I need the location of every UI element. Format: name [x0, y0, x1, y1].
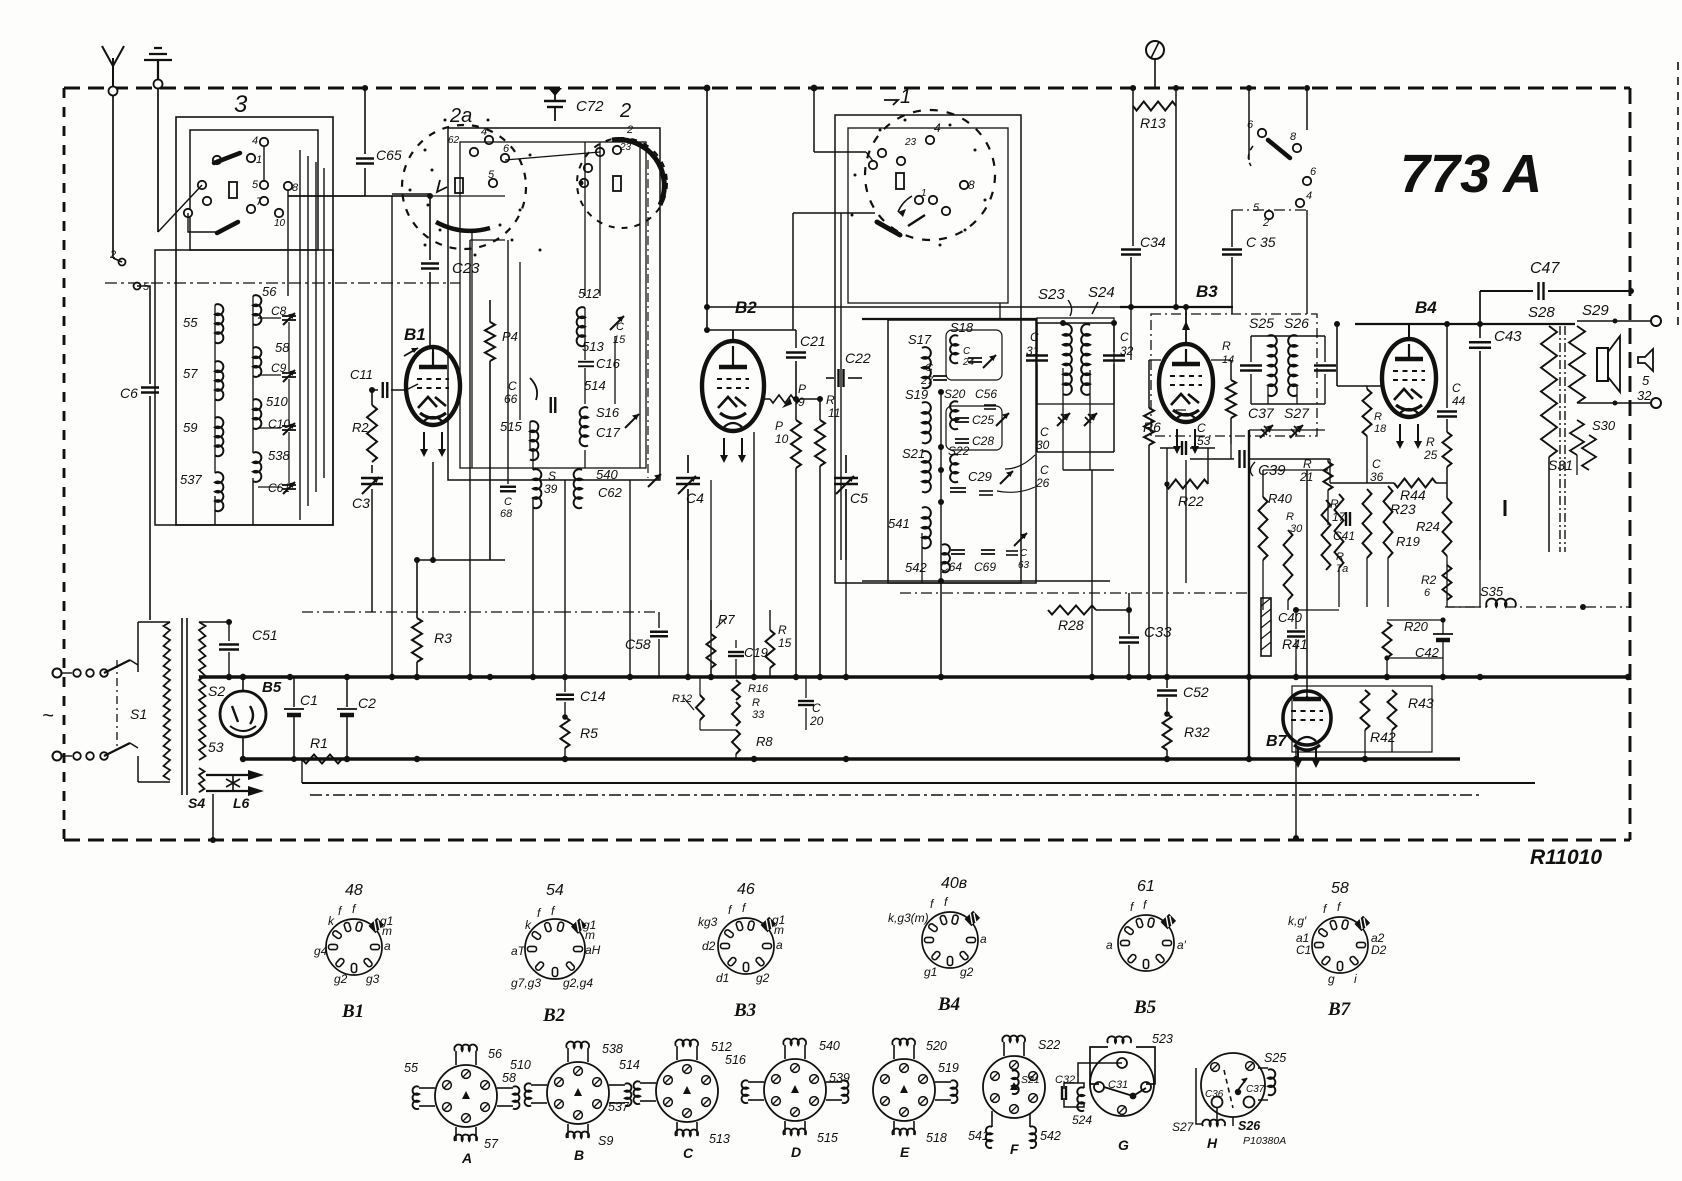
- svg-text:g3: g3: [366, 972, 380, 986]
- svg-text:S23: S23: [1038, 286, 1065, 303]
- switch 2a rotor: [436, 222, 490, 231]
- svg-text:519: 519: [938, 1061, 959, 1075]
- svg-text:C25: C25: [972, 413, 994, 427]
- trimmer C63: [1014, 533, 1027, 546]
- coil 56 of unit A: [455, 1051, 457, 1065]
- unit G rotor: [1104, 1087, 1146, 1096]
- svg-text:54: 54: [546, 882, 564, 899]
- trimmer C29t: [1000, 471, 1013, 484]
- switch 3 rotor blade: [214, 153, 240, 163]
- svg-text:C62: C62: [598, 485, 623, 500]
- svg-text:S1: S1: [130, 706, 147, 722]
- resistor R18: [1366, 386, 1368, 389]
- svg-text:a: a: [1106, 938, 1113, 952]
- coil unit E: [873, 1059, 935, 1121]
- capacitor C27: [933, 375, 947, 377]
- unit H arrow: [1238, 1078, 1247, 1090]
- svg-text:C61: C61: [268, 481, 290, 495]
- svg-text:44: 44: [1452, 394, 1466, 408]
- inner box S20: [946, 406, 1002, 450]
- switch 2 contacts: [596, 148, 604, 156]
- svg-text:C: C: [1120, 330, 1129, 344]
- svg-text:R: R: [1374, 411, 1382, 423]
- coil S20: [950, 401, 958, 429]
- pot R9 arrow: [770, 395, 800, 403]
- svg-text:R1: R1: [310, 735, 328, 751]
- coil 524 of unit G: [1077, 1087, 1084, 1111]
- svg-text:C: C: [1452, 381, 1461, 395]
- coil 57 of unit A: [455, 1127, 457, 1141]
- svg-text:C3: C3: [352, 495, 370, 511]
- resistor R32: [1163, 714, 1172, 750]
- S35 dashdot wire: [1445, 606, 1487, 608]
- coil S38: [253, 452, 261, 482]
- svg-text:S16: S16: [596, 405, 620, 420]
- svg-text:B5: B5: [262, 679, 282, 696]
- svg-text:G: G: [1118, 1137, 1129, 1153]
- trimmer C17: [625, 414, 639, 428]
- coil 537 of unit B: [609, 1084, 625, 1086]
- coil S25 of unit H: [1258, 1067, 1268, 1069]
- svg-text:541: 541: [888, 516, 910, 531]
- resistor R30: [1284, 530, 1293, 600]
- svg-text:B5: B5: [1133, 997, 1157, 1018]
- svg-text:S4: S4: [188, 795, 205, 811]
- svg-text:23: 23: [619, 142, 632, 153]
- coil 514 of unit C: [640, 1082, 656, 1084]
- coil 520 of unit E: [893, 1045, 895, 1059]
- svg-text:S30: S30: [1592, 418, 1616, 433]
- svg-text:1: 1: [256, 154, 262, 166]
- mixer box internal wires: [940, 392, 942, 583]
- svg-text:C: C: [1030, 330, 1039, 344]
- resistor R41 hatched: [1261, 598, 1271, 656]
- svg-text:C1: C1: [300, 692, 318, 708]
- svg-text:S19: S19: [905, 387, 928, 402]
- svg-text:R11010: R11010: [1530, 846, 1602, 869]
- coil S7: [215, 361, 223, 400]
- winding S4: [199, 768, 205, 792]
- svg-text:C32: C32: [1055, 1074, 1075, 1086]
- svg-text:C31: C31: [1108, 1079, 1128, 1091]
- svg-text:514: 514: [584, 378, 606, 393]
- svg-text:H: H: [1207, 1135, 1218, 1151]
- svg-text:C: C: [812, 701, 821, 715]
- scan noise dots around switch 1: [879, 129, 882, 132]
- svg-text:a: a: [980, 932, 987, 946]
- wafer switch 3 inner box: [190, 130, 318, 250]
- svg-text:R6: R6: [1143, 419, 1161, 435]
- svg-text:36: 36: [1370, 470, 1384, 484]
- tube B3: [1159, 344, 1213, 422]
- B7 box: [1292, 686, 1432, 752]
- coil 515 of unit D: [784, 1121, 786, 1135]
- capacitor C68: [500, 486, 516, 488]
- mains switch blades: [104, 660, 130, 673]
- svg-text:C: C: [1020, 548, 1028, 559]
- svg-text:55: 55: [183, 315, 198, 330]
- svg-text:aT: aT: [511, 944, 527, 958]
- svg-text:g: g: [1328, 972, 1335, 986]
- svg-text:R: R: [778, 623, 787, 637]
- svg-text:C: C: [1040, 463, 1049, 477]
- resistor R28: [1048, 606, 1096, 615]
- svg-text:538: 538: [602, 1042, 623, 1056]
- svg-text:523: 523: [1152, 1032, 1173, 1046]
- alignment arrows S25 S26: [1260, 425, 1273, 438]
- svg-text:C6: C6: [120, 385, 138, 401]
- top right switch cluster: [1258, 129, 1266, 137]
- svg-text:kg3: kg3: [698, 915, 718, 929]
- svg-text:S35: S35: [1480, 584, 1504, 599]
- coil S42: [942, 544, 950, 572]
- coil 513 of unit C: [676, 1122, 678, 1136]
- wire switch3 to C65: [288, 195, 365, 197]
- svg-text:539: 539: [829, 1071, 850, 1085]
- antenna symbol: [102, 46, 124, 95]
- wafer switch 2a dashed circle: [402, 125, 526, 249]
- coil S25: [1268, 335, 1277, 396]
- svg-text:S9: S9: [598, 1134, 613, 1148]
- trimmer C24: [968, 357, 982, 359]
- resistor R14: [1230, 360, 1232, 380]
- svg-text:C 35: C 35: [1246, 234, 1276, 250]
- variable capacitor C5: [845, 455, 847, 473]
- capacitor C51: [199, 621, 229, 623]
- switch 3 rotor blade 2: [217, 222, 238, 233]
- capacitor C11: [372, 389, 378, 391]
- coil 541 of unit F: [991, 1111, 993, 1127]
- svg-text:C47: C47: [1530, 260, 1560, 277]
- svg-text:C72: C72: [576, 98, 604, 115]
- svg-text:514: 514: [619, 1058, 640, 1072]
- svg-text:25: 25: [1423, 448, 1438, 462]
- svg-text:C34: C34: [1140, 234, 1166, 250]
- oscillator box outer: [448, 128, 660, 480]
- svg-text:4: 4: [252, 135, 258, 147]
- svg-text:S24: S24: [1088, 284, 1115, 301]
- coil S40: [574, 469, 582, 508]
- coil S19: [922, 402, 931, 443]
- speaker: [1597, 348, 1608, 381]
- capacitor C32: [1113, 323, 1115, 352]
- coil 58 of unit A: [497, 1087, 513, 1089]
- svg-text:i: i: [1354, 972, 1357, 986]
- svg-text:6: 6: [1310, 166, 1317, 178]
- cap column vertical: [288, 322, 290, 371]
- svg-text:R12: R12: [672, 693, 692, 705]
- svg-text:C69: C69: [974, 560, 996, 574]
- switch 3 contacts: [213, 156, 221, 164]
- svg-text:515: 515: [500, 419, 522, 434]
- cluster wiring: [1248, 88, 1250, 160]
- resistor R40: [1262, 470, 1264, 497]
- svg-text:R: R: [1336, 551, 1344, 563]
- resistor R43: [1388, 690, 1397, 730]
- svg-text:542: 542: [905, 560, 927, 575]
- svg-text:g1: g1: [924, 965, 937, 979]
- svg-text:R16: R16: [748, 683, 769, 695]
- coil S23: [1063, 324, 1072, 395]
- B3 grid top wire: [1120, 306, 1233, 308]
- svg-text:S17: S17: [908, 332, 932, 347]
- capacitor C38 left: [1250, 336, 1252, 362]
- B3 heater arrows: [1176, 429, 1178, 446]
- svg-text:aH: aH: [585, 943, 601, 957]
- HT bus line (thick): [199, 675, 1630, 679]
- coil S35: [1486, 599, 1516, 607]
- svg-text:55: 55: [404, 1061, 418, 1075]
- svg-text:11: 11: [828, 406, 840, 420]
- extra junction dots: [704, 304, 710, 310]
- svg-text:R: R: [1330, 497, 1339, 511]
- svg-text:C8: C8: [271, 304, 287, 318]
- svg-text:15: 15: [778, 636, 792, 650]
- svg-text:56: 56: [262, 284, 277, 299]
- osc internal verticals2: [507, 240, 509, 484]
- winding S29: [1569, 326, 1585, 403]
- svg-text:C4: C4: [686, 490, 704, 506]
- svg-text:S22: S22: [948, 444, 970, 458]
- svg-text:510: 510: [266, 394, 288, 409]
- coil 523 of unit G: [1090, 1047, 1108, 1084]
- mark 1 tick: [1504, 500, 1507, 516]
- svg-text:518: 518: [926, 1131, 947, 1145]
- S4 lead to border: [212, 794, 214, 840]
- svg-text:C: C: [925, 362, 933, 374]
- svg-text:R24: R24: [1416, 519, 1440, 534]
- tube B2: [702, 341, 764, 431]
- coil S12: [577, 307, 585, 346]
- capacitor C29: [950, 487, 966, 489]
- svg-text:g4: g4: [314, 944, 328, 958]
- svg-text:m: m: [382, 924, 392, 938]
- resistor R19: [1363, 489, 1372, 558]
- vertical wire x707 from border to B2 plate: [706, 88, 708, 330]
- dashed chassis border: [64, 87, 1630, 90]
- svg-text:5: 5: [252, 179, 259, 191]
- wafer switch 2 dashed circle: [577, 138, 667, 228]
- svg-text:C29: C29: [968, 469, 992, 484]
- capacitor C32 of unit G: [1061, 1086, 1063, 1100]
- svg-text:B7: B7: [1266, 733, 1288, 750]
- svg-text:C14: C14: [580, 688, 606, 704]
- capacitor C43: [1479, 324, 1481, 338]
- B2 grid wire: [764, 398, 770, 400]
- resistor R7a: [1322, 500, 1331, 570]
- capacitor C21: [786, 351, 806, 353]
- svg-text:6: 6: [1424, 587, 1431, 599]
- svg-text:8: 8: [968, 178, 975, 192]
- trimmer C8: [282, 315, 296, 317]
- resistor R8: [732, 730, 740, 754]
- coil unit H: [1201, 1053, 1265, 1117]
- svg-text:32: 32: [1637, 388, 1652, 403]
- speaker field S30 S31: [1570, 420, 1584, 455]
- secondary S2 S3: [199, 622, 206, 760]
- coil 519 of unit E: [935, 1081, 951, 1083]
- svg-text:C: C: [504, 496, 512, 508]
- R1 lower wire: [301, 759, 303, 783]
- capacitor C22: [826, 377, 834, 379]
- heater dash-dot line: [310, 794, 1480, 796]
- capacitor C28: [955, 438, 969, 440]
- resistor R20: [1383, 622, 1392, 658]
- svg-text:R7: R7: [718, 612, 735, 627]
- capacitor C14: [564, 688, 566, 692]
- svg-text:C37: C37: [1246, 1084, 1265, 1095]
- resistor R16: [732, 680, 740, 700]
- svg-text:31: 31: [1026, 344, 1039, 358]
- svg-text:S18: S18: [950, 320, 974, 335]
- svg-text:S25: S25: [1264, 1051, 1286, 1065]
- svg-text:g2: g2: [960, 965, 974, 979]
- long vertical wires extra: [564, 480, 566, 677]
- capacitor C25: [955, 417, 969, 419]
- resistor R13: [1132, 88, 1134, 106]
- svg-text:R22: R22: [1178, 493, 1204, 509]
- svg-text:4: 4: [934, 121, 941, 135]
- cathode junction wire: [417, 559, 505, 561]
- svg-text:3: 3: [234, 91, 248, 118]
- svg-text:P: P: [798, 382, 806, 396]
- svg-text:C17: C17: [596, 425, 621, 440]
- svg-text:C28: C28: [972, 434, 994, 448]
- coil S24: [1081, 324, 1090, 395]
- svg-text:516: 516: [725, 1053, 746, 1067]
- capacitor C41: [1345, 512, 1347, 526]
- coil S22 of unit F: [1003, 1042, 1005, 1056]
- svg-text:6: 6: [1247, 119, 1254, 131]
- svg-text:R20: R20: [1404, 619, 1429, 634]
- svg-text:C10: C10: [268, 417, 290, 431]
- osc box dash-dot right: [647, 160, 649, 478]
- B2 plate wiring: [707, 329, 796, 331]
- capacitor C6: [149, 340, 151, 384]
- svg-text:5: 5: [1642, 373, 1650, 388]
- svg-text:53: 53: [208, 739, 224, 755]
- svg-text:10: 10: [274, 218, 286, 229]
- left coil interconnect wires: [214, 305, 216, 473]
- unit G left wire: [1078, 1063, 1122, 1083]
- S25 S26 wiring: [1251, 335, 1325, 337]
- trimmer C25t: [996, 413, 1009, 426]
- switch 1 contacts: [878, 149, 886, 157]
- capacitor C58: [658, 612, 660, 628]
- svg-text:30: 30: [1036, 438, 1050, 452]
- coil-cap row links: [258, 317, 281, 319]
- svg-text:512: 512: [711, 1040, 732, 1054]
- svg-text:C64: C64: [940, 560, 962, 574]
- capacitor C69: [981, 549, 995, 551]
- svg-text:k,g′: k,g′: [1288, 914, 1307, 928]
- resistor R42: [1361, 690, 1370, 730]
- svg-text:4: 4: [1306, 190, 1312, 202]
- svg-text:23: 23: [904, 137, 917, 148]
- svg-text:R8: R8: [756, 734, 773, 749]
- svg-text:9: 9: [798, 395, 805, 409]
- capacitor C39: [1190, 458, 1234, 460]
- B5 leads: [242, 677, 244, 691]
- resistor R24: [1443, 498, 1452, 556]
- svg-text:20: 20: [809, 714, 824, 728]
- oscillator inner box: [460, 142, 646, 468]
- wire antenna down: [112, 95, 114, 258]
- svg-text:1: 1: [900, 86, 911, 108]
- node contact 5: [134, 283, 141, 290]
- coil 516 of unit D: [748, 1081, 764, 1083]
- coil S15: [530, 421, 538, 460]
- svg-text:58: 58: [502, 1071, 516, 1085]
- svg-text:5: 5: [1253, 202, 1260, 214]
- capacitor C20: [805, 677, 807, 698]
- osc internal verticals: [471, 230, 473, 468]
- svg-text:2: 2: [619, 100, 631, 122]
- switch 1 rotor blades: [877, 222, 900, 235]
- svg-text:537: 537: [180, 472, 202, 487]
- capacitor C47: [1480, 290, 1533, 292]
- B1 grid cap lead: [432, 347, 434, 352]
- node contact 2: [119, 259, 126, 266]
- bus junction dots: [287, 674, 293, 680]
- svg-text:B1: B1: [404, 325, 426, 344]
- svg-text:B3: B3: [1196, 282, 1218, 301]
- cathode bus line (thick): [243, 757, 1460, 761]
- top wire to output transformer: [1355, 323, 1575, 325]
- svg-text:R: R: [1222, 339, 1231, 353]
- wafer switch 3 outer box: [176, 117, 333, 525]
- svg-text:C1: C1: [1296, 943, 1311, 957]
- resistor R7: [710, 600, 712, 634]
- capacitor C53: [1160, 447, 1178, 449]
- coil S9: [215, 417, 223, 456]
- mid-low wiring: [700, 729, 736, 731]
- svg-text:7a: 7a: [1336, 563, 1348, 575]
- svg-text:17: 17: [1332, 510, 1347, 524]
- unit H rotor dashed: [1224, 1070, 1233, 1108]
- IF2 dash-dot box: [1151, 314, 1317, 436]
- svg-text:1: 1: [921, 188, 927, 199]
- svg-text:57: 57: [183, 366, 198, 381]
- svg-text:E: E: [900, 1144, 910, 1160]
- transformer core: [1559, 326, 1561, 552]
- svg-text:R: R: [1426, 435, 1435, 449]
- heater winding arrows L6: [206, 774, 248, 776]
- coil 538 of unit B: [567, 1048, 569, 1062]
- svg-text:g2: g2: [756, 971, 770, 985]
- resistor R21: [1327, 459, 1329, 462]
- mid horizontal wires: [392, 193, 430, 195]
- svg-text:2: 2: [626, 124, 633, 136]
- switch 2 wiring: [505, 152, 600, 160]
- svg-text:2a: 2a: [449, 105, 472, 127]
- scan noise dots around switch 2a: [424, 149, 427, 152]
- svg-text:773 A: 773 A: [1400, 144, 1542, 204]
- svg-text:5: 5: [488, 169, 495, 181]
- capacitor C72 feedthrough: [548, 88, 562, 96]
- resistor R17: [1335, 494, 1344, 568]
- capacitor C34: [1121, 248, 1141, 250]
- svg-text:R3: R3: [434, 630, 452, 646]
- variable capacitor C3: [371, 465, 373, 473]
- svg-text:S21: S21: [902, 446, 925, 461]
- svg-text:C: C: [1372, 457, 1381, 471]
- svg-text:R: R: [752, 697, 760, 709]
- capacitor C35: [1231, 210, 1233, 247]
- svg-text:g2: g2: [334, 972, 348, 986]
- R26 resistor: [1443, 565, 1452, 600]
- svg-text:C40: C40: [1278, 610, 1303, 625]
